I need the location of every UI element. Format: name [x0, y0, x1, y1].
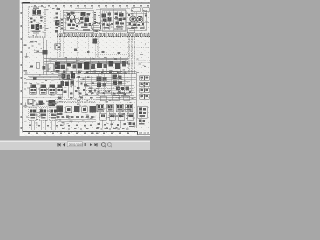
cluster right-top caps: [128, 14, 147, 29]
wire bundle W3 vertical wide: [128, 38, 134, 75]
bus band BUS1 tap ticks: [60, 33, 148, 37]
wire horizontals bottom-right top: [96, 97, 136, 99]
relay K1 pair: [140, 76, 149, 81]
svg-text:2001/1160: 2001/1160: [69, 143, 83, 147]
capacitor C111 polarized: [34, 50, 47, 54]
transistor array row: Q404: [57, 84, 63, 94]
frame top ruler tick numbers: [34, 5, 149, 7]
toolbar prev-page button: [63, 143, 65, 146]
relay K3 pair: [140, 88, 149, 93]
diode D101: [30, 65, 33, 67]
section box A (dashed) top-left: [29, 7, 45, 37]
driver module M404 partial: [59, 108, 62, 115]
label box L302: [143, 8, 150, 12]
wire pair vertical mid-left: [44, 38, 46, 75]
IC U302 cluster: [114, 12, 125, 29]
toolbar next-page button: [90, 143, 92, 146]
section box B outline top-mid: [63, 10, 93, 33]
viewer background: [0, 0, 150, 150]
frame top heavy mark: [23, 2, 31, 4]
page left edge shadow: [18, 0, 21, 136]
motor M1 circle: [92, 22, 101, 31]
IC U503 cluster left of divider: [116, 86, 129, 96]
IC U601: [57, 106, 64, 115]
wire dashed vertical W1d: [88, 38, 90, 56]
resistor R116: [87, 51, 90, 53]
resistor R115: [74, 49, 77, 51]
wire bundle W2 vertical: [96, 38, 99, 59]
bottom label strip marks: [62, 128, 128, 129]
section box C outline: [102, 11, 126, 32]
wire mesh center-right mid: [76, 77, 136, 95]
wire dashed horizontal pre-bus: [96, 53, 128, 55]
capacitor C141: [64, 91, 67, 93]
toolbar top highlight: [0, 141, 150, 142]
bits below left modules: [29, 125, 58, 127]
wire bundle W1 vertical: [58, 38, 61, 58]
wire verticals bottom rows: [100, 112, 128, 128]
capacitor cluster bottom-right corner: [129, 122, 136, 127]
toolbar first-page button: [58, 143, 61, 146]
wire right column vertical: [146, 10, 148, 30]
label box LB1: [100, 96, 106, 101]
wire section A down: [35, 34, 37, 37]
wire dashed vertical W1b: [62, 38, 64, 58]
toolbar last-page button: [95, 143, 98, 146]
bus BUS2 central horizontals: [44, 58, 128, 63]
capacitor C720 cluster: [139, 120, 145, 125]
label box LB2: [112, 96, 120, 100]
IC U101: [32, 7, 42, 15]
ferrite bead FB1: [92, 38, 97, 43]
opto row1 PC1: [97, 104, 104, 112]
bits row above left IC group: [30, 103, 56, 105]
resistor R140: [84, 84, 87, 86]
transistor Q302: [137, 16, 143, 22]
toolbar zoom-in icon: [102, 143, 107, 148]
toolbar zoom-out icon: [108, 143, 113, 148]
driver module M402: [39, 108, 47, 121]
wire horizontals right-mid: [84, 71, 136, 73]
wire verticals central: [66, 57, 120, 74]
IC U501 cluster: [96, 76, 106, 87]
wire top-mid horizontals: [63, 8, 93, 31]
toolbar separator tick: [85, 143, 86, 146]
resistor row RR1: [77, 76, 131, 95]
wires below left modules: [31, 121, 55, 130]
frame bottom border line: [23, 131, 138, 133]
IC U605: [89, 106, 95, 113]
wire verticals center-right mid: [78, 74, 131, 96]
title block outline bottom-right: [138, 132, 151, 135]
wire vertical dashed near CN101: [59, 11, 61, 33]
resistor R118: [117, 52, 120, 54]
resistor R101 cluster: [30, 17, 43, 23]
bus band BUS1 horizontal: [57, 34, 150, 37]
schematic page (white sheet): [20, 0, 151, 136]
IC U502 cluster: [112, 75, 122, 85]
IC U110 box: [48, 64, 54, 72]
IC U602: [66, 107, 72, 113]
capacitor C110 marks: [56, 45, 60, 49]
wire dashed horizontal above left group: [23, 105, 62, 107]
IC U111 dark: [55, 62, 60, 73]
wire grid top-right: [126, 12, 149, 30]
capacitor C142: [70, 92, 73, 94]
scattered parts bottom-right lower: [97, 123, 126, 129]
bus BUS4 dotted bottom-center: [55, 100, 96, 103]
connector CN101 column: [55, 8, 60, 32]
capacitor C112: [42, 66, 45, 69]
diode D110: [39, 100, 44, 104]
central row components cluster: [61, 61, 126, 70]
connector CN103 box: [55, 44, 61, 50]
filter box FL1: [127, 29, 134, 33]
connector CN202 pin column: [94, 12, 96, 24]
central row small parts lower: [63, 70, 119, 73]
frame top border line: [22, 2, 151, 4]
resistor R141: [75, 90, 78, 92]
IC U121: [48, 100, 54, 106]
IC U201: [80, 12, 91, 30]
IC U301 cluster: [102, 13, 114, 29]
opto row2 PC7: [118, 113, 124, 120]
wire horizontals mid-left bottom: [24, 74, 62, 76]
frame bottom ruler tick numbers: [28, 132, 129, 134]
opto row2 PC5: [100, 113, 106, 120]
resistor R150 bits above bus: [58, 96, 92, 98]
label box L301: [132, 8, 140, 12]
wire horizontals upper row4 left: [26, 78, 62, 80]
transistor array row: Q402: [40, 84, 47, 94]
IC U603: [74, 106, 80, 112]
bus BUS3 horizontals: [84, 89, 134, 93]
page scan speckle: [20, 0, 151, 136]
opto row2 PC8: [127, 113, 133, 120]
driver module M401: [29, 108, 37, 121]
center cluster CL1 dark shapes: [60, 73, 75, 86]
section box B left sub-box: [60, 18, 66, 30]
wire dotted pair to right edge: [134, 60, 150, 62]
IC U102: [31, 24, 42, 33]
opto row2 PC6: [109, 113, 115, 120]
wire horizontals bottom-center: [55, 120, 96, 122]
toolbar page-number box: [67, 142, 82, 147]
transistor array row: Q401: [30, 84, 37, 94]
resistor R117: [102, 51, 105, 53]
scattered parts bottom-center: [60, 124, 92, 126]
frame left border line: [22, 4, 24, 132]
section divider vertical right: [136, 71, 138, 128]
title block text marks: [139, 133, 149, 134]
scan texture: component value labels: [24, 8, 148, 127]
transistor array row: Q403: [49, 84, 56, 94]
wire verticals center cluster: [63, 74, 79, 112]
toolbar strip: [0, 141, 150, 151]
ground G1: [24, 53, 28, 58]
wire dashed horizontal row4 left: [23, 97, 62, 99]
IC U604: [82, 107, 88, 113]
central row lower lines: [44, 72, 127, 74]
resistor bank RB1: [61, 19, 63, 29]
wire dotted horizontal right: [134, 46, 150, 48]
opto row1 PC2: [107, 104, 114, 112]
text label TL1 marks: [23, 41, 33, 71]
wire dashed vertical W1c: [76, 38, 78, 57]
wire grid top-midright extra: [96, 10, 126, 31]
scan veil over schematic area: [23, 6, 150, 132]
wire verticals mid-top: [100, 9, 125, 31]
relay K2 pair: [140, 82, 149, 87]
opto row1 PC3: [116, 104, 123, 112]
frame left ruler tick numbers: [21, 12, 23, 129]
driver module M403: [49, 108, 57, 121]
cluster around Q201/Q202: [66, 12, 78, 30]
resistor R120: [36, 63, 39, 69]
IC U701 bottom-right column: [138, 106, 148, 118]
transistor Q301: [130, 16, 136, 22]
resistor R130: [33, 77, 37, 80]
wire top horizontal section C: [100, 7, 130, 9]
label box LB3: [124, 96, 130, 100]
bottom-center small rows: [57, 116, 94, 118]
relay K4 pair: [140, 94, 149, 99]
ground G2: [24, 103, 28, 108]
transistor Q202: [75, 19, 80, 24]
capacitor C140: [89, 90, 92, 92]
IC U120: [28, 99, 33, 104]
transistor Q201: [69, 15, 74, 20]
opto row1 PC4: [126, 104, 133, 112]
